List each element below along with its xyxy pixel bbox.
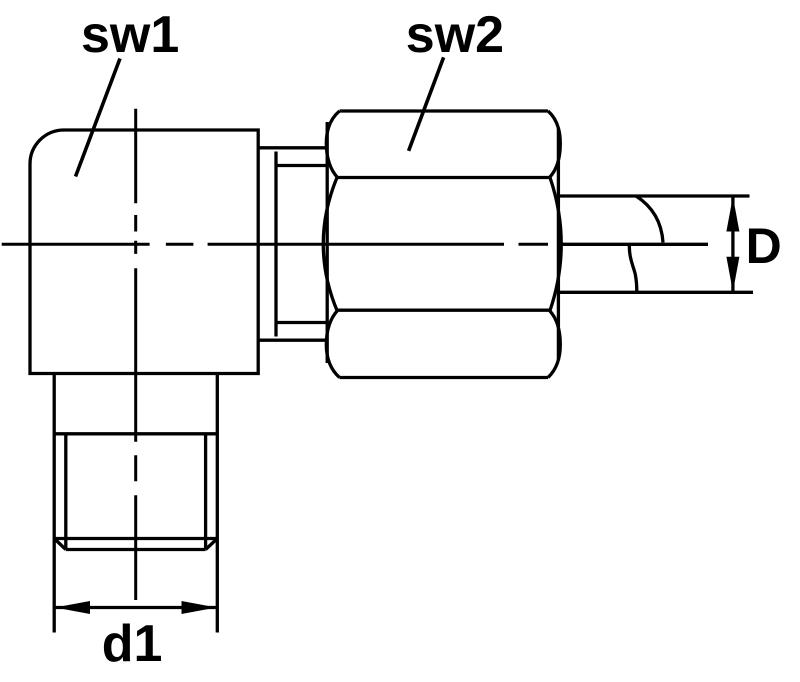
tube bottom line xyxy=(558,291,753,294)
connector top line xyxy=(258,146,327,149)
stud chamfer left xyxy=(54,539,66,550)
vertical centerline xyxy=(134,109,137,600)
tube middle break line xyxy=(562,243,709,246)
d1 arrowhead right xyxy=(182,601,217,614)
stud outer right line + extension line xyxy=(216,374,219,633)
nut chamfer arc top-left xyxy=(326,111,339,178)
stud bottom edge xyxy=(66,548,206,551)
D arrowhead bottom xyxy=(726,257,739,292)
thread minor left line xyxy=(64,434,67,550)
svg-text:sw2: sw2 xyxy=(406,6,504,64)
nut upper band line xyxy=(337,176,550,179)
D arrowhead top xyxy=(726,197,739,232)
nut chamfer arc bottom-left xyxy=(326,311,339,378)
leader line sw1 xyxy=(76,59,121,177)
connector bottom line xyxy=(258,339,327,342)
horizontal centerline xyxy=(2,243,548,246)
connector vertical edge xyxy=(274,152,277,337)
nut right face line xyxy=(557,128,560,360)
svg-text:D: D xyxy=(746,218,782,274)
d1 arrowhead left xyxy=(55,601,90,614)
nut chamfer arc mid-right xyxy=(550,178,561,311)
thread minor right line xyxy=(204,434,207,550)
tube break curve upper xyxy=(636,196,663,243)
leader line sw2 xyxy=(409,57,444,150)
D dimension line xyxy=(731,196,734,292)
thread start line xyxy=(54,432,217,435)
stud chamfer right xyxy=(206,539,218,550)
nut bottom edge xyxy=(340,376,549,379)
nut chamfer arc mid-left xyxy=(323,178,337,311)
connector thread top line xyxy=(278,164,329,167)
tube break curve lower xyxy=(629,246,636,292)
connector thread bottom line xyxy=(278,321,329,324)
nut top edge xyxy=(340,109,549,112)
svg-text:d1: d1 xyxy=(102,615,163,673)
body elbow block xyxy=(30,130,258,374)
tube top line xyxy=(558,194,749,197)
nut chamfer arc top-right xyxy=(548,111,560,178)
nut left face line xyxy=(326,122,329,363)
d1 dimension line xyxy=(55,606,217,609)
thread bottom line xyxy=(54,537,217,540)
nut chamfer arc bottom-right xyxy=(548,311,560,378)
svg-text:sw1: sw1 xyxy=(81,6,179,64)
stud outer left line + extension line xyxy=(53,374,56,633)
nut lower band line xyxy=(337,309,550,312)
